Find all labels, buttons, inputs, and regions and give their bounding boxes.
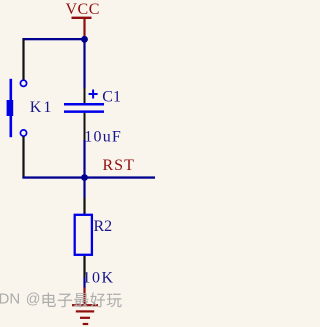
svg-text:K1: K1 xyxy=(30,99,54,116)
power symbol VCC xyxy=(65,1,99,38)
watermark char zui xyxy=(74,293,89,307)
wire RST horizontal xyxy=(22,176,155,178)
wire cap lower xyxy=(83,140,85,178)
svg-text:C1: C1 xyxy=(102,88,121,105)
pushbutton K1 xyxy=(7,79,54,137)
wire top horizontal xyxy=(22,38,85,40)
wire cap upper xyxy=(83,39,85,89)
svg-text:@: @ xyxy=(26,291,41,307)
svg-text:R2: R2 xyxy=(94,218,113,235)
node junction top xyxy=(81,36,88,43)
pin K1 top xyxy=(22,39,24,80)
watermark char wan xyxy=(107,294,122,308)
svg-text:VCC: VCC xyxy=(65,1,99,18)
pin R2 bottom xyxy=(83,256,85,277)
wire R2 upper xyxy=(83,178,85,198)
pin R2 top xyxy=(83,198,85,215)
ground xyxy=(72,288,98,326)
svg-text:DN: DN xyxy=(0,291,20,308)
svg-text:10K: 10K xyxy=(83,270,115,287)
pin K1 bottom xyxy=(22,137,24,179)
svg-text:RST: RST xyxy=(103,157,135,174)
resistor R2 xyxy=(75,215,115,287)
capacitor C1 xyxy=(64,88,122,145)
node junction RST xyxy=(81,174,88,181)
svg-text:10uF: 10uF xyxy=(84,128,122,145)
watermark char hao xyxy=(90,293,105,308)
watermark char dian xyxy=(43,293,56,307)
wire R2 to ground xyxy=(83,277,85,288)
watermark char zi xyxy=(58,294,72,308)
